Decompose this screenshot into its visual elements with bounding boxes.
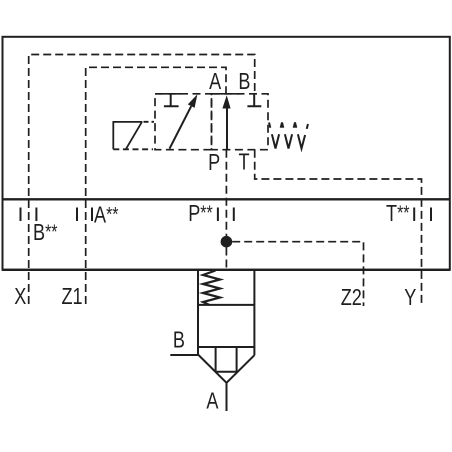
svg-text:A: A [206, 389, 218, 415]
svg-text:T**: T** [386, 200, 410, 226]
svg-text:P**: P** [188, 201, 213, 227]
svg-text:X: X [14, 284, 26, 310]
svg-text:P: P [208, 150, 220, 176]
svg-text:Z2: Z2 [341, 285, 362, 311]
svg-text:B: B [173, 328, 185, 354]
svg-text:B: B [238, 69, 250, 95]
svg-text:Z1: Z1 [62, 284, 83, 310]
svg-text:T: T [239, 150, 250, 176]
svg-text:Y: Y [404, 285, 416, 311]
svg-text:A**: A** [94, 202, 119, 228]
svg-text:B**: B** [33, 220, 58, 246]
svg-text:A: A [209, 69, 221, 95]
